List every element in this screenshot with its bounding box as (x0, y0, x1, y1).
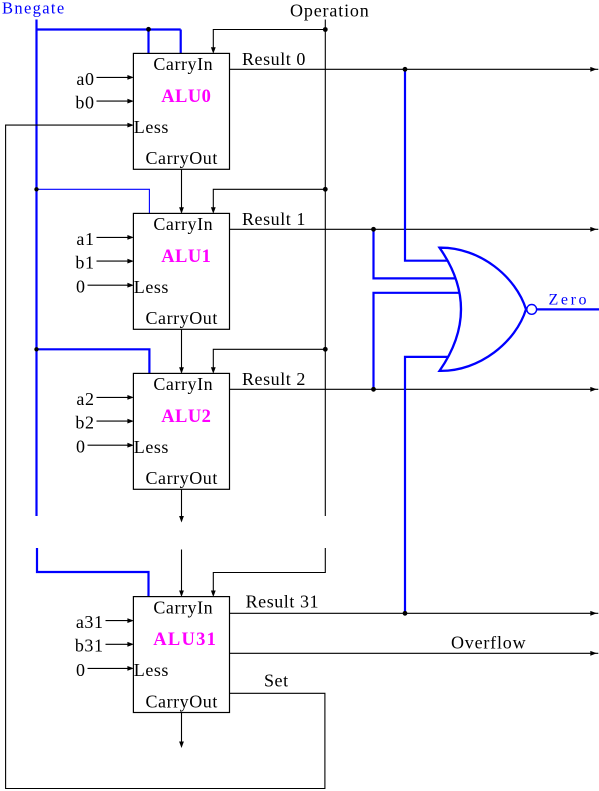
wire Bnegate trunk vertical (35, 20, 37, 517)
svg-text:CarryOut: CarryOut (146, 691, 218, 711)
svg-text:b31: b31 (75, 636, 104, 656)
wire Zero output (537, 308, 599, 310)
svg-text:Less: Less (134, 660, 169, 680)
svg-text:a2: a2 (76, 389, 94, 409)
svg-text:Less: Less (134, 117, 169, 137)
wire input a2 (97, 396, 129, 398)
wire CarryOut ALU1 to CarryIn ALU2 (181, 329, 183, 370)
node junction Bnegate trunk / ALU1 branch (34, 187, 38, 191)
svg-text:b1: b1 (75, 253, 94, 273)
wire input 0 to Less of ALU1 (88, 284, 129, 286)
svg-text:Result 0: Result 0 (242, 49, 306, 69)
svg-text:ALU31: ALU31 (153, 630, 217, 650)
svg-text:CarryIn: CarryIn (153, 54, 213, 74)
svg-text:a1: a1 (76, 229, 94, 249)
svg-text:Less: Less (134, 277, 169, 297)
node junction Result1 tap (371, 227, 376, 232)
node junction Operation / ALU2 branch (323, 347, 328, 352)
node junction Result31 tap (403, 611, 408, 616)
wire input a31 (106, 620, 129, 622)
svg-text:ALU1: ALU1 (161, 247, 211, 267)
svg-text:Less: Less (134, 437, 169, 457)
wire input b1 (97, 260, 129, 262)
svg-text:0: 0 (76, 437, 86, 457)
svg-text:Result 31: Result 31 (246, 591, 319, 611)
wire CarryOut ALU31 down arrow (181, 713, 183, 745)
wire Operation branch into ALU1 (213, 189, 325, 210)
ALU1 block box (133, 213, 229, 329)
node junction Bnegate/ALU0 (146, 27, 151, 32)
svg-text:CarryOut: CarryOut (146, 148, 218, 168)
node junction Result2 tap (371, 387, 376, 392)
wire Binvert drop into ALU0 (147, 30, 149, 54)
wire Result2 to NOR input 3 (374, 293, 462, 390)
wire input a0 (97, 76, 129, 78)
svg-text:b0: b0 (75, 93, 94, 113)
wire input b0 (97, 100, 129, 102)
svg-text:ALU2: ALU2 (161, 407, 211, 427)
wire Operation branch into ALU0 (213, 30, 325, 50)
svg-text:b2: b2 (75, 413, 94, 433)
svg-text:Overflow: Overflow (451, 633, 526, 653)
svg-text:a0: a0 (76, 69, 94, 89)
ALU0 block box (133, 53, 229, 169)
NOR gate (zero detector) body (440, 248, 527, 371)
svg-text:CarryOut: CarryOut (146, 308, 218, 328)
wire CarryIn drop into ALU0 (180, 30, 182, 54)
svg-text:CarryIn: CarryIn (153, 374, 213, 394)
node junction Operation / ALU0 branch (323, 27, 328, 32)
wire Result31 to NOR input 4 (405, 357, 452, 613)
svg-text:Zero: Zero (549, 292, 590, 309)
svg-text:Result 1: Result 1 (242, 209, 306, 229)
wire Set loop from ALU31 Set output to ALU0 Less input (6, 125, 325, 788)
node junction Operation / ALU1 branch (323, 187, 328, 192)
wire input 0 to Less of ALU31 (88, 667, 129, 669)
svg-text:CarryIn: CarryIn (153, 597, 213, 617)
wire Result 0 (230, 68, 599, 70)
wire input 0 to Less of ALU2 (88, 444, 129, 446)
NOR gate output bubble (527, 305, 537, 315)
svg-text:ALU0: ALU0 (161, 87, 211, 107)
wire input b2 (97, 420, 129, 422)
svg-text:Operation: Operation (290, 1, 370, 21)
wire Operation branch into ALU2 (213, 349, 325, 370)
svg-text:Result 2: Result 2 (242, 369, 306, 389)
svg-text:0: 0 (76, 660, 86, 680)
wire Result1 to NOR input 2 (374, 229, 459, 278)
wire Overflow (230, 652, 599, 654)
wire input a1 (97, 236, 129, 238)
ALU2 block box (133, 373, 229, 489)
svg-text:a31: a31 (76, 612, 104, 632)
wire Result 1 (230, 228, 599, 230)
ALU31 block box (133, 597, 229, 713)
node junction Bnegate trunk / ALU2 branch (34, 347, 38, 351)
wire input b31 (106, 643, 129, 645)
wire Binvert branch to ALU31 (after break) (37, 548, 149, 597)
wire Bnegate top horizontal run (37, 28, 181, 30)
wire CarryIn ALU31 (broken continuation) (181, 550, 183, 594)
svg-text:CarryOut: CarryOut (146, 468, 218, 488)
svg-text:0: 0 (76, 277, 86, 297)
wire CarryOut ALU2 (broken continuation) (181, 489, 183, 516)
wire Result 2 (230, 388, 599, 390)
wire Result0 to NOR input 1 (405, 69, 452, 260)
node junction Result0 tap (403, 67, 408, 72)
wire Operation trunk resume + branch into ALU31 (213, 548, 325, 593)
wire Operation trunk vertical (324, 20, 326, 517)
svg-text:Set: Set (264, 671, 289, 691)
svg-text:Bnegate: Bnegate (2, 0, 66, 18)
wire Result 31 (230, 612, 599, 614)
wire CarryOut ALU0 to CarryIn ALU1 (181, 169, 183, 210)
wire Binvert branch to ALU1 (37, 189, 150, 214)
wire Binvert branch to ALU2 (37, 349, 150, 374)
svg-text:CarryIn: CarryIn (153, 214, 213, 234)
